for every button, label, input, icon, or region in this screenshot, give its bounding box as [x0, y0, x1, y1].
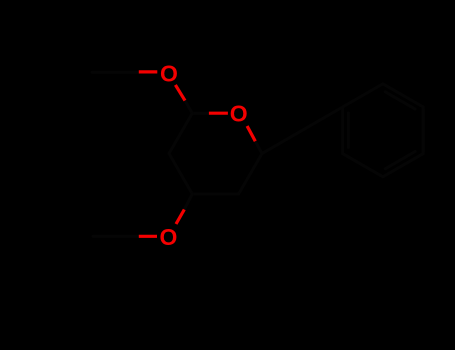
bond Ce-CH2-Q1 (benzyl chain, drawn colinear): [262, 107, 343, 154]
aromatic inner line Q4-Q5: [385, 152, 415, 169]
bond Me3-O3 (red half): [139, 235, 157, 238]
wire: dark bonds of carbon skeleton: [92, 72, 423, 236]
bond Cf-Cd (pyran ring): [192, 193, 238, 196]
bond Me1-O1 (red half): [139, 70, 158, 73]
bond O2-Ce (dark half): [255, 141, 262, 153]
bond Ce-Cf (pyran ring): [239, 154, 262, 194]
aromatic inner line Q6-Q1: [347, 113, 350, 148]
red half-bonds adjacent to oxygens: [139, 72, 256, 236]
bond Me3-O3 (dark half of bottom methyl): [93, 235, 139, 238]
bond Ca-O2 (dark half): [192, 112, 209, 115]
svg-text:O: O: [160, 60, 178, 86]
bond O2-Ce (red half): [247, 126, 255, 141]
benzene ring Q1-Q6: [343, 84, 424, 177]
bond Cd-Cb (pyran ring): [169, 154, 192, 195]
bond O1-Ca (dark half): [185, 101, 192, 114]
bond Me1-O1 (dark half of top methyl): [92, 71, 139, 74]
bond O1-Ca (red half): [175, 85, 185, 101]
aromatic inner line Q2-Q3: [385, 92, 415, 109]
bond Cd-O3 (dark half): [184, 194, 192, 210]
svg-text:O: O: [160, 224, 178, 250]
bond Cd-O3 (red half): [176, 210, 184, 225]
svg-text:O: O: [230, 101, 248, 127]
bond Ca-O2 (red half): [209, 112, 228, 115]
bond Cb-Ca (pyran ring): [169, 113, 192, 153]
